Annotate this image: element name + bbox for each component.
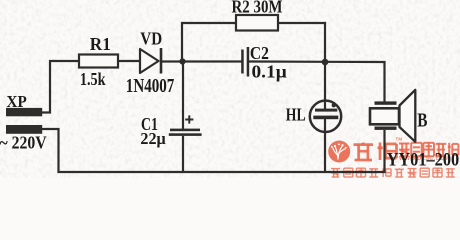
svg-text:22μ: 22μ xyxy=(140,129,165,148)
capacitor C2 xyxy=(241,47,249,77)
wire from plug to R1 (left vertical) xyxy=(42,61,79,113)
svg-text:B: B xyxy=(417,110,427,131)
lamp HL (neon) xyxy=(310,101,341,132)
watermark logo circle xyxy=(328,141,350,163)
wire junction down to lamp HL xyxy=(324,62,326,101)
svg-text:1.5k: 1.5k xyxy=(80,69,106,89)
svg-text:R1: R1 xyxy=(90,34,111,54)
wire R1 to diode VD xyxy=(118,60,141,62)
diode VD xyxy=(140,48,161,74)
svg-text:R2 30M: R2 30M xyxy=(232,0,283,16)
wire plug lower prong to bottom rail xyxy=(42,129,59,172)
wire diode to C2 (mid rail) xyxy=(161,60,242,62)
resistor R1 xyxy=(79,55,118,68)
node junction at x182 xyxy=(179,58,185,64)
capacitor C1 electrolytic xyxy=(169,115,202,136)
resistor R2 xyxy=(236,15,278,31)
svg-text:YY01–200: YY01–200 xyxy=(387,150,460,171)
plug XP xyxy=(6,108,42,134)
svg-text:TM: TM xyxy=(395,137,402,142)
watermark text 维库 xyxy=(354,143,397,161)
svg-text:VD: VD xyxy=(140,29,162,49)
watermark text 专业电子元器件交易网站 xyxy=(331,168,455,177)
wire bottom rail xyxy=(57,171,385,173)
svg-text:XP: XP xyxy=(7,92,27,111)
wire top-right vertical drop xyxy=(324,22,326,62)
speaker B xyxy=(370,90,415,142)
svg-text:1N4007: 1N4007 xyxy=(126,75,175,97)
wire junction x182 down to C1 xyxy=(182,62,184,130)
wire C1 to bottom rail xyxy=(182,136,184,173)
svg-text:C2: C2 xyxy=(250,43,269,63)
wire C2 to speaker corner xyxy=(249,60,386,63)
svg-text:0.1μ: 0.1μ xyxy=(252,62,287,82)
svg-text:~ 220V: ~ 220V xyxy=(0,132,47,152)
scan noise xyxy=(0,0,460,178)
wire lamp HL to bottom rail xyxy=(324,131,326,173)
wire top rail left of R2 xyxy=(182,22,237,24)
node junction at x325 xyxy=(322,59,329,66)
wire speaker to bottom rail xyxy=(383,130,385,173)
wire top-left vertical drop xyxy=(181,22,183,62)
wire top rail right of R2 xyxy=(277,22,326,24)
watermark text 电子市场网 xyxy=(399,143,458,157)
svg-text:HL: HL xyxy=(286,104,306,124)
